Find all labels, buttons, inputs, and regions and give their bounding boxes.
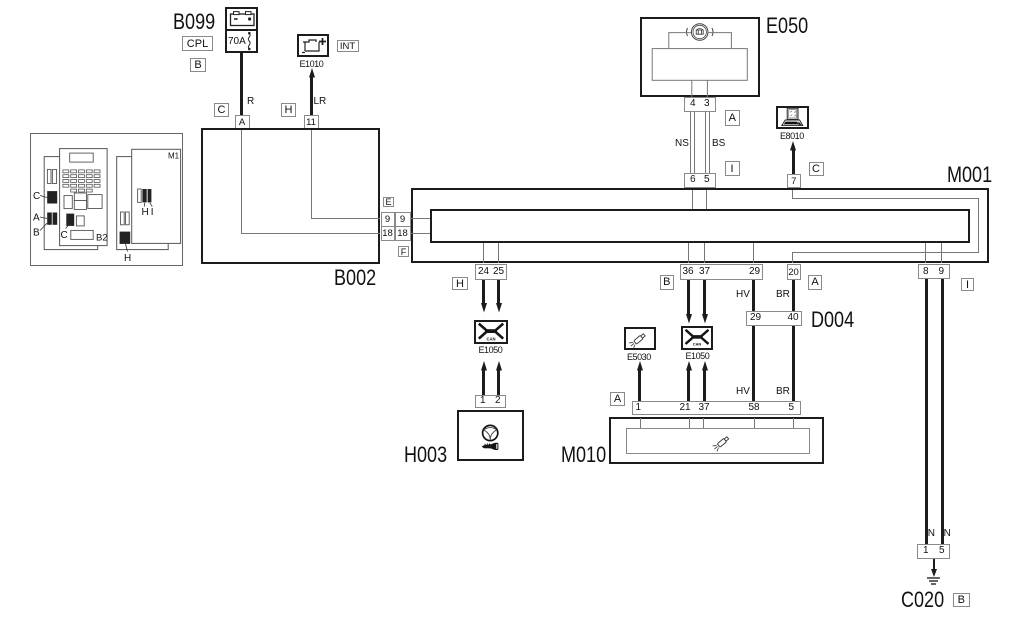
inset frame — [31, 134, 183, 266]
connector letter C box — [809, 162, 824, 177]
wire arrow up from H003 pin 1 — [482, 369, 485, 395]
left rear panel — [44, 157, 97, 250]
body computer B002 label — [334, 267, 376, 289]
wire arrow up from M001 pin 7 to E8010 — [792, 148, 795, 174]
CAN network node E1050 box (dashboard) — [681, 326, 713, 350]
qualifier INT box — [337, 40, 359, 52]
B2 relay cluster — [64, 193, 102, 210]
connector pin 20 box on M001 bottom — [787, 264, 801, 280]
wire M001 pin 6 to inner unit — [692, 190, 693, 209]
wire inside B002 from pin 11 to pin 9 — [311, 130, 312, 219]
E050 blower motor icon — [640, 17, 760, 97]
connector letter E box — [383, 197, 394, 207]
connector pin 9 box on B002 — [381, 212, 395, 227]
wire N from M001 pin 8 to C020 pin 1 — [925, 279, 928, 544]
svg-text:M1: M1 — [168, 152, 180, 161]
B2 panel top window — [70, 153, 94, 162]
connector plug icon of M010 — [706, 428, 742, 454]
connector plug icon of E5030 — [624, 327, 657, 350]
wire M001 inner unit to pin 24 — [483, 243, 484, 263]
wire arrow up from M010 pin 1 to E5030 — [638, 369, 641, 402]
wire M001 inner unit to pin 36 — [688, 243, 689, 263]
wire M001 pin 18 to inner unit — [411, 233, 430, 234]
CAN icon of E1050 — [474, 320, 508, 344]
ground connector C020 pin 1 5 box — [917, 544, 950, 559]
connector pin 36 37 29 box on M001 bottom — [680, 264, 764, 280]
key icon — [494, 443, 498, 450]
connector pin 8 9 box on M001 bottom — [918, 264, 950, 279]
connector letter A box on M010 — [610, 392, 625, 406]
diagnostic socket E8010 box — [776, 106, 809, 129]
wire HV from D004 to M010 pin 58 — [752, 326, 755, 402]
wire colour label HV lower — [736, 386, 750, 397]
connector H black square — [120, 232, 131, 244]
battery icon of B099 — [225, 7, 258, 30]
diagnostic tester icon of E8010 — [776, 106, 809, 129]
dashboard cables M010 box — [609, 417, 824, 464]
steering wheel and key icon of H003 — [457, 410, 524, 461]
earth point label E5030 — [627, 353, 651, 362]
fuse 70A value label — [228, 37, 246, 47]
svg-text:B: B — [33, 228, 40, 239]
wire colour label R — [247, 96, 254, 107]
connector qualifier CPL box — [182, 36, 213, 51]
wire M001 pin 5 to inner unit — [706, 190, 707, 209]
connector H and I black bars — [142, 189, 146, 202]
rear panel top slots — [47, 170, 51, 184]
wire M001 inner unit to pin 37 — [704, 243, 705, 263]
connector C black square on B2 — [66, 214, 74, 226]
wire arrow down from M001 pin 24 — [482, 280, 485, 305]
svg-text:C: C — [61, 230, 68, 241]
wire M001 inner unit to pin 9 — [941, 243, 942, 263]
battery B099 symbol box with 70A fuse — [225, 7, 258, 53]
instrument panel M001 label — [947, 164, 992, 186]
connector letter A box — [808, 275, 822, 290]
junction connector D004 label — [811, 309, 854, 331]
wire BS double line E050 pin 3 to M001 pin 5 — [705, 112, 706, 173]
ground connector C020 label — [901, 589, 944, 611]
CAN icon of second E1050 — [681, 326, 713, 350]
connector letter H box — [452, 277, 468, 291]
steering column switch unit H003 box — [457, 410, 524, 461]
wire N from M001 pin 9 to C020 pin 5 — [941, 279, 944, 544]
wire M001 inner unit to pin 25 — [498, 243, 499, 263]
ground wire below C020 — [933, 559, 935, 571]
connector letter H box — [281, 103, 296, 117]
wire colour label N left — [928, 528, 935, 539]
wires M010 pins to inner rect — [640, 418, 641, 428]
battery plus icon of E1010 — [297, 34, 329, 57]
connector pin 6 5 box on M001 top — [684, 173, 717, 189]
wire route M001 pin 7 to pin 20 — [792, 190, 793, 199]
svg-text:I: I — [151, 207, 154, 218]
wire colour label NS — [675, 138, 689, 149]
connector letter B box of C020 — [953, 593, 970, 607]
connector letter F box — [398, 246, 409, 257]
steering column switch unit H003 label — [404, 444, 447, 466]
small white slot right of C — [76, 216, 84, 226]
connector A and B black bars — [47, 213, 52, 225]
svg-text:CAN: CAN — [486, 337, 495, 342]
ground symbol bars — [927, 577, 940, 579]
wire battery B099 to B002 pin A — [240, 52, 243, 115]
B2 fuse grid — [63, 170, 100, 192]
heater A/C unit E050 box — [640, 17, 760, 97]
connector pin 11 box on B002 — [304, 115, 319, 129]
battery B099 label — [173, 11, 215, 33]
svg-text:H: H — [124, 253, 131, 264]
CAN network node E1050 box (steering column) — [474, 320, 508, 344]
connector pin 9 box on M001 — [395, 212, 411, 227]
instrument panel M001 outer box — [411, 188, 989, 263]
wire arrow down from M001 pin 25 — [497, 280, 500, 305]
connector C black square — [47, 191, 57, 203]
dashboard cables M010 label — [561, 444, 606, 466]
wire colour label N right — [944, 528, 951, 539]
wire arrow down from M001 pin 36 — [687, 280, 690, 316]
ground point label E1010 — [300, 60, 324, 69]
wire colour label BS — [712, 138, 725, 149]
earth point E5030 box — [624, 327, 657, 350]
connector pin 7 box on M001 top — [787, 174, 802, 188]
M1 white slot — [138, 189, 142, 202]
wire M001 pin 9 to inner unit — [411, 218, 430, 219]
CAN network node label E1050 — [479, 346, 503, 355]
connector pin 24 25 box on M001 bottom — [475, 264, 508, 280]
fuse box location inset — [30, 133, 183, 266]
ground point E1010 symbol box — [297, 34, 329, 57]
svg-text:B2: B2 — [96, 233, 108, 244]
connector letter I box — [725, 161, 740, 176]
wire colour label LR — [314, 96, 327, 107]
svg-text:CAN: CAN — [693, 342, 702, 347]
M1 front panel — [132, 149, 181, 243]
wire inside B002 from pin A to pin 18 — [241, 130, 242, 234]
fuse 70A squiggle symbol — [243, 30, 257, 52]
wire arrow up from H003 pin 2 — [497, 369, 500, 395]
wire M001 inner unit to pin 29 — [753, 243, 754, 263]
connector pin 1 2 box on H003 — [475, 395, 507, 409]
fuse 70A divider — [226, 29, 257, 31]
wires from blower to resistor block — [669, 33, 732, 49]
wire arrow down from M001 pin 37 — [703, 280, 706, 316]
connector pin A box on B002 — [235, 115, 250, 129]
wire NS double line E050 pin 4 to M001 pin 6 — [690, 112, 691, 173]
body computer B002 box — [201, 128, 380, 264]
M001 inner unit box — [430, 209, 970, 243]
connector pin 18 box on B002 — [381, 226, 395, 241]
ground arrow head — [931, 569, 937, 577]
M010 inner rect — [626, 428, 811, 455]
wire colour label BR lower — [776, 386, 790, 397]
connector pin 18 box on M001 — [395, 226, 411, 241]
connector pin 4 3 box on E050 — [684, 97, 717, 113]
junction connector D004 pin 29 40 box — [746, 311, 802, 326]
connector letter B box — [660, 275, 674, 290]
heater A/C unit E050 label — [766, 15, 808, 37]
wire arrow up from M010 pin 21 to E1050 — [687, 369, 690, 402]
wire colour label HV upper — [736, 289, 750, 300]
connector letter C box — [214, 103, 229, 117]
wire colour label BR upper — [776, 289, 790, 300]
wire arrow up from M010 pin 37 to E1050 — [703, 369, 706, 402]
wire arrow up to E1010, colour LR — [310, 76, 313, 115]
CAN network node label E1050 (second) — [686, 352, 710, 361]
connector letter A box — [725, 110, 741, 126]
wire M001 inner unit to pin 8 — [925, 243, 926, 263]
B2 bottom window — [71, 230, 93, 239]
wire BR from M001 pin 20 to D004 pin 40 — [792, 280, 795, 312]
B2 front panel — [60, 149, 108, 246]
diagnostic socket label E8010 — [780, 132, 804, 141]
wire BR from D004 to M010 pin 5 — [792, 326, 795, 402]
wire HV from M001 pin 29 to D004 pin 29 — [752, 280, 755, 312]
svg-text:H: H — [142, 207, 149, 218]
connector letter B box — [190, 58, 206, 72]
rear panel white slots — [121, 212, 125, 225]
right rear panel — [117, 157, 169, 250]
svg-text:C: C — [33, 191, 40, 202]
svg-text:A: A — [33, 213, 40, 224]
connector letter I box — [961, 278, 974, 291]
connector pin strip on M010: pins 1 21 37 58 5 — [632, 401, 801, 415]
